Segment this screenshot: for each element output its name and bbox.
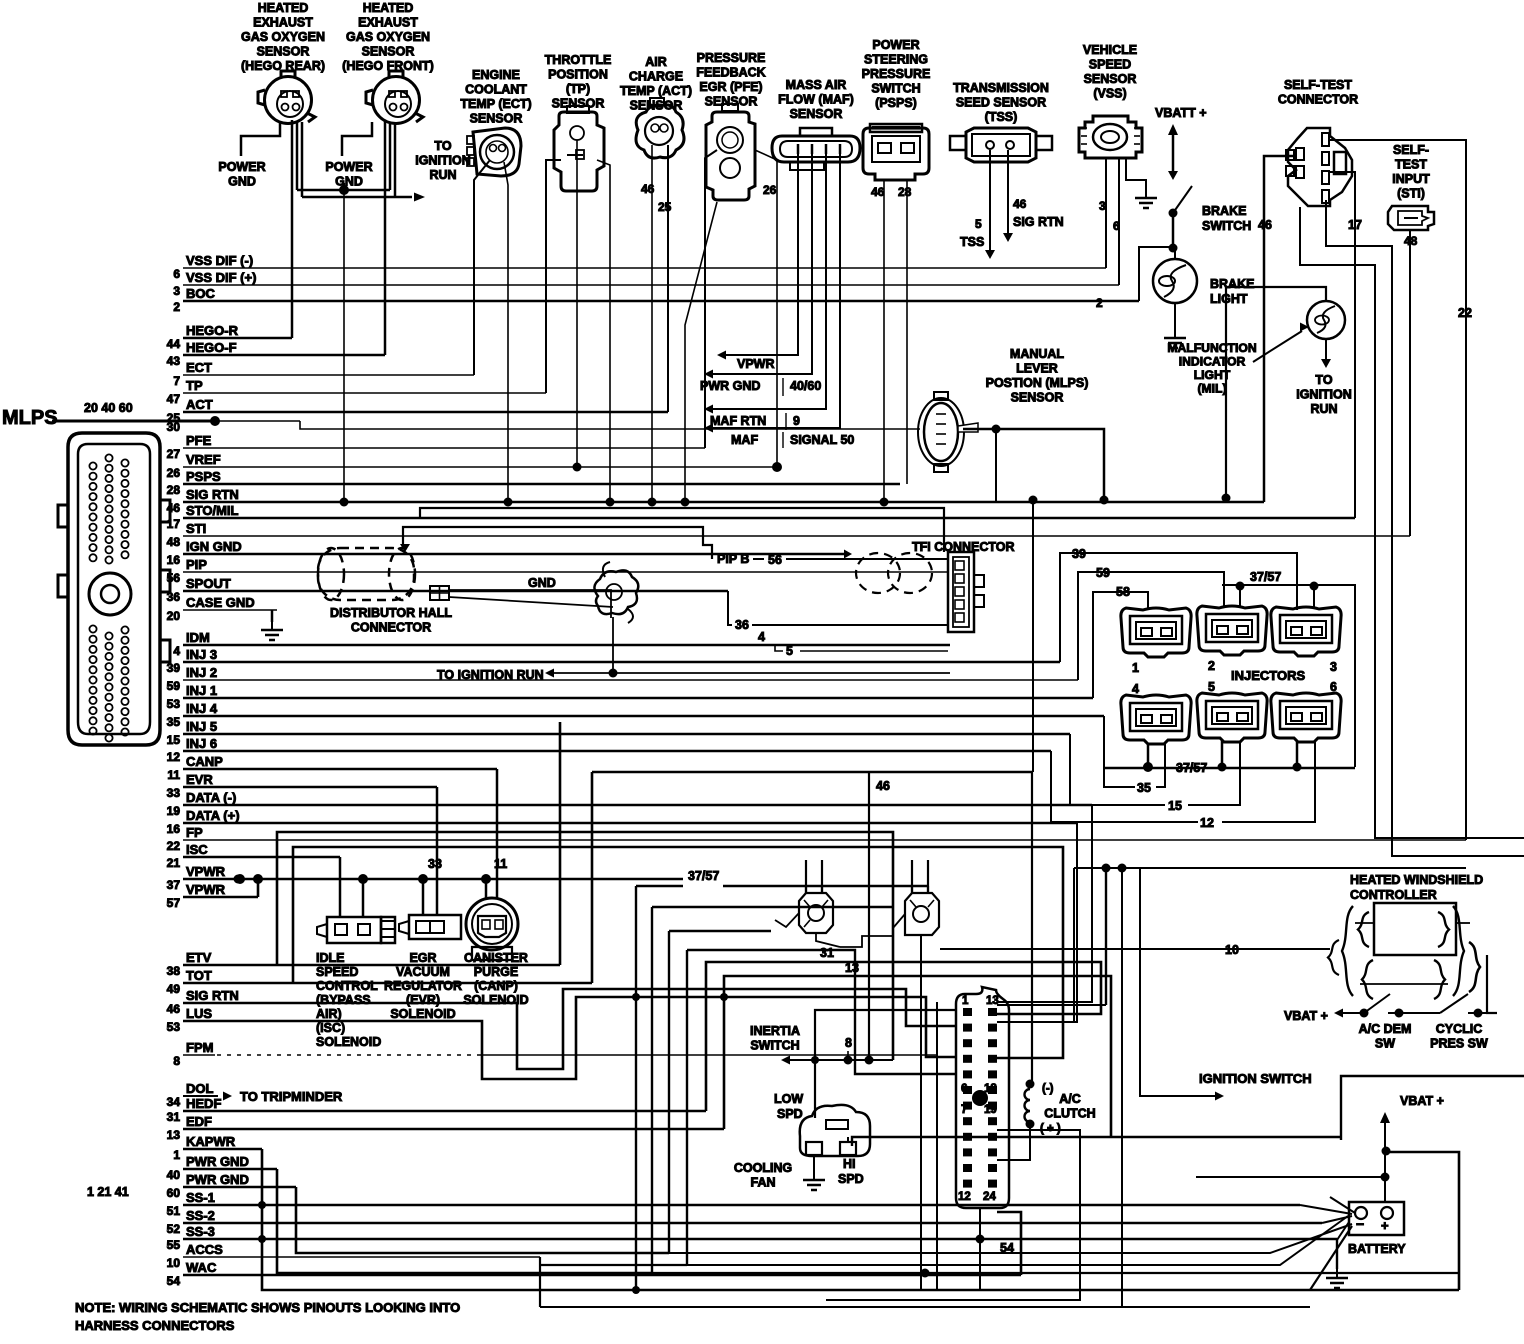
svg-text:INPUT: INPUT [1392, 172, 1430, 186]
wire TP VREF [576, 140, 578, 467]
svg-text:THROTTLE: THROTTLE [545, 53, 612, 67]
svg-text:SPD: SPD [777, 1107, 803, 1121]
svg-text:ACCS: ACCS [186, 1242, 223, 1257]
wire relay feed stubs [805, 886, 807, 893]
svg-text:52: 52 [167, 1222, 181, 1236]
svg-text:20 40 60: 20 40 60 [84, 401, 133, 415]
svg-text:55: 55 [167, 1238, 181, 1252]
wire HEGO front heater a [389, 122, 392, 190]
svg-text:SWITCH: SWITCH [871, 82, 920, 96]
wire TSS signal [989, 150, 991, 252]
wire pin 33 EVR [183, 786, 437, 789]
svg-text:26: 26 [763, 183, 777, 197]
wire MLPS to sig rtn [963, 429, 1104, 502]
wire pin 47 TP [183, 392, 546, 394]
svg-text:36: 36 [735, 618, 749, 632]
svg-text:SPEED: SPEED [316, 965, 358, 979]
svg-text:IGNITION SWITCH: IGNITION SWITCH [1199, 1071, 1312, 1086]
svg-text:28: 28 [167, 483, 181, 497]
svg-text:VREF: VREF [186, 452, 221, 467]
svg-text:ENGINE: ENGINE [472, 68, 520, 82]
svg-text:38: 38 [167, 964, 181, 978]
wire HEGO rear signal to pin 44 [291, 120, 294, 338]
shield junction box [430, 586, 449, 600]
wire PWR GND 40 chain [277, 1169, 652, 1273]
svg-text:LOW: LOW [774, 1092, 803, 1106]
wire pin 53 LUS [182, 1020, 185, 1023]
svg-text:12: 12 [1200, 816, 1214, 830]
svg-text:TO: TO [1315, 373, 1332, 387]
wire AC clutch feed from SIG RTN [1032, 500, 1034, 772]
svg-text:SPEED: SPEED [1089, 58, 1131, 72]
svg-text:4: 4 [173, 644, 180, 658]
wire pin 60 PWR GND [183, 1186, 296, 1189]
svg-text:MAF RTN: MAF RTN [710, 414, 766, 428]
svg-text:CASE GND: CASE GND [186, 595, 255, 610]
svg-text:56: 56 [167, 571, 181, 585]
svg-text:INJ 3: INJ 3 [186, 647, 217, 662]
distributor hall connector (dashed) [318, 548, 415, 600]
svg-text:27: 27 [167, 447, 181, 461]
wire pin 52 SS-2 [183, 1222, 1322, 1225]
svg-text:8: 8 [845, 1036, 852, 1050]
wire MIL to ignition run [1325, 339, 1327, 360]
wire INJ6 12 [1051, 751, 1198, 822]
wire pin 17 STO/MIL [183, 517, 1355, 520]
svg-text:EXHAUST: EXHAUST [358, 16, 418, 30]
wire SS-2 to battery [1322, 1216, 1352, 1223]
wire VSS pin6 to VSS DIF+ row [1118, 158, 1120, 285]
wire pin 38 ETV [183, 964, 560, 967]
svg-text:SPOUT: SPOUT [186, 576, 231, 591]
wire self-test top to 22 [1330, 140, 1466, 840]
svg-text:TP: TP [186, 378, 203, 393]
wire pin 44 HEGO-R [183, 337, 292, 340]
svg-text:−: − [1356, 1216, 1364, 1232]
svg-text:CONNECTOR: CONNECTOR [1278, 93, 1358, 107]
svg-text:FAN: FAN [751, 1176, 776, 1190]
svg-text:34: 34 [167, 1095, 181, 1109]
svg-text:CONTROL: CONTROL [316, 979, 378, 993]
svg-text:43: 43 [167, 354, 181, 368]
svg-text:IGN GND: IGN GND [186, 539, 242, 554]
wire C1 right pins misc [997, 1004, 1106, 1006]
svg-text:25: 25 [658, 200, 672, 214]
wire pin 2 BOC [183, 300, 1139, 303]
svg-text:GAS OXYGEN: GAS OXYGEN [346, 30, 430, 44]
svg-text:SENSOR: SENSOR [1011, 391, 1064, 405]
svg-text:SIG RTN: SIG RTN [186, 487, 239, 502]
svg-text:CHARGE: CHARGE [629, 70, 683, 84]
svg-text:37/57: 37/57 [1250, 570, 1281, 584]
svg-text:37: 37 [167, 878, 181, 892]
svg-text:(ISC): (ISC) [316, 1021, 345, 1035]
svg-text:KAPWR: KAPWR [186, 1134, 236, 1149]
svg-text:33: 33 [167, 786, 181, 800]
svg-text:FPM: FPM [186, 1040, 213, 1055]
svg-text:15: 15 [1168, 799, 1182, 813]
wire pin 1 KAPWR [183, 1148, 262, 1151]
wire heater junction h1 [297, 189, 390, 192]
wire pin 57 VPWR [183, 896, 258, 899]
battery [1349, 1202, 1404, 1235]
wire pin 48 STI [183, 535, 1410, 537]
svg-text:BRAKE: BRAKE [1202, 204, 1246, 218]
connector J1 pins [89, 462, 96, 469]
wire TOT riser [591, 772, 594, 983]
wire pin 21 ISC [183, 856, 340, 859]
svg-text:3: 3 [1330, 660, 1337, 674]
wire VPWR 57 jog to 37 [257, 879, 260, 897]
svg-text:22: 22 [1458, 306, 1472, 320]
svg-text:PIP B: PIP B [717, 552, 749, 566]
wire FPM row to C1 [936, 1002, 938, 1290]
svg-text:10: 10 [167, 1256, 181, 1270]
wire ACCS chain [539, 1257, 541, 1307]
svg-text:RUN: RUN [429, 168, 456, 182]
wire EVR left pin to VPWR [422, 879, 425, 915]
wire pin 37 VPWR [183, 878, 683, 881]
svg-text:INDICATOR: INDICATOR [1179, 355, 1246, 369]
svg-text:PRES SW: PRES SW [1430, 1037, 1488, 1051]
svg-text:SELF-: SELF- [1393, 143, 1429, 157]
svg-text:HEGO-R: HEGO-R [186, 323, 239, 338]
svg-text:INJ 5: INJ 5 [186, 719, 217, 734]
wire SS-1 to battery [1300, 1205, 1352, 1214]
wire CANP left pin to VPWR [485, 879, 488, 898]
svg-text:17: 17 [167, 517, 181, 531]
svg-text:SS-1: SS-1 [186, 1190, 215, 1205]
svg-text:(TP): (TP) [566, 82, 590, 96]
svg-text:STEERING: STEERING [864, 53, 928, 67]
svg-text:9: 9 [793, 414, 800, 428]
svg-text:TSS: TSS [960, 235, 984, 249]
svg-text:37/57: 37/57 [1176, 761, 1207, 775]
svg-text:40/60: 40/60 [790, 379, 821, 393]
svg-text:35: 35 [167, 715, 181, 729]
svg-text:12: 12 [167, 750, 181, 764]
svg-text:46: 46 [1013, 197, 1027, 211]
svg-text:NOTE: WIRING SCHEMATIC SHOWS P: NOTE: WIRING SCHEMATIC SHOWS PINOUTS LOO… [75, 1300, 460, 1315]
wire pin 25 ACT [183, 411, 668, 414]
svg-text:33: 33 [428, 857, 442, 871]
svg-text:TO IGNITION RUN: TO IGNITION RUN [437, 668, 544, 682]
wire SIG RTN branch bottom [183, 989, 956, 1069]
svg-text:PWR GND: PWR GND [186, 1154, 249, 1169]
svg-text:2: 2 [1208, 659, 1215, 673]
svg-text:46: 46 [167, 501, 181, 515]
wire 22 to FP handled above; wire 868 link [1074, 867, 1466, 869]
wire pin 46 SIG RTN [183, 501, 1264, 504]
wire HEGO front power gnd stub [342, 122, 372, 156]
svg-text:BRAKE: BRAKE [1210, 277, 1254, 291]
wire pin 20 CASE GND [183, 609, 277, 611]
svg-text:MAF: MAF [731, 433, 758, 447]
wire self-test lower branch [1300, 207, 1375, 536]
wire ECT sig rtn [504, 162, 508, 502]
svg-text:INJ 6: INJ 6 [186, 736, 217, 751]
wire HEGO rear power gnd stub [241, 122, 280, 156]
wire battery gnd [1337, 1222, 1349, 1270]
wire pin 6 VSS DIF (-) [183, 267, 1106, 269]
svg-text:(MIL): (MIL) [1197, 382, 1226, 396]
wire pin 28 PSPS [183, 483, 900, 486]
svg-text:DATA (+): DATA (+) [186, 808, 240, 823]
svg-text:59: 59 [1096, 566, 1110, 580]
svg-text:IDLE: IDLE [316, 951, 344, 965]
svg-text:SWITCH: SWITCH [1202, 219, 1251, 233]
wire MIL top [1226, 287, 1326, 498]
svg-text:INJ 1: INJ 1 [186, 683, 217, 698]
wire TO IGNITION RUN (distributor) [553, 672, 950, 674]
wire shield B [403, 527, 712, 559]
svg-text:6: 6 [961, 1083, 967, 1095]
wire arrow to MIL [1253, 331, 1302, 362]
wire STI input pin48 down [1409, 230, 1411, 536]
wire AC clutch return [997, 1124, 1030, 1160]
svg-text:11: 11 [494, 857, 507, 871]
svg-text:HEATED: HEATED [363, 1, 413, 15]
svg-text:A/C DEM: A/C DEM [1359, 1022, 1412, 1036]
svg-text:46: 46 [876, 779, 890, 793]
wire LUS branch bottom [183, 997, 956, 1079]
svg-text:FEEDBACK: FEEDBACK [696, 66, 765, 80]
wire pin 53 INJ 1 [183, 697, 1093, 700]
svg-text:SOLENOID: SOLENOID [316, 1035, 381, 1049]
wire bottom extra [1121, 868, 1123, 1307]
wire controller right down [1487, 955, 1497, 1013]
wire INJ1 58 [1093, 592, 1148, 698]
wire VSS gnd [1126, 158, 1146, 190]
svg-text:SEED SENSOR: SEED SENSOR [956, 96, 1046, 110]
svg-text:SENSOR: SENSOR [470, 112, 523, 126]
svg-text:VSS DIF (+): VSS DIF (+) [186, 270, 256, 285]
svg-text:SS-3: SS-3 [186, 1224, 215, 1239]
svg-text:28: 28 [898, 185, 912, 199]
wire PSPS signal 28 [906, 180, 908, 484]
svg-text:VSS DIF (-): VSS DIF (-) [186, 253, 253, 268]
wire HEGO front heater b [394, 122, 397, 197]
wire right staircase B [1375, 536, 1524, 838]
svg-text:IDM: IDM [186, 630, 210, 645]
svg-text:TEMP (ACT): TEMP (ACT) [620, 84, 692, 98]
svg-text:12: 12 [958, 1191, 971, 1203]
svg-text:35: 35 [1137, 781, 1151, 795]
svg-text:INERTIA: INERTIA [750, 1024, 800, 1038]
wire PIP B [753, 558, 764, 560]
wire 37/57 upper [1222, 585, 1355, 767]
wire PWR GND 60 chain [296, 1187, 669, 1253]
wire TP signal to pin 47 [546, 160, 561, 393]
svg-text:INJ 4: INJ 4 [186, 701, 218, 716]
wire HEGO rear heater a [296, 122, 299, 190]
wire brake sw to BOC [1139, 247, 1173, 301]
svg-text:8: 8 [173, 1054, 180, 1068]
wire pin 51 SS-1 [183, 1204, 1300, 1207]
svg-text:POSTION (MLPS): POSTION (MLPS) [986, 376, 1089, 390]
wire fan low feed from C1 [815, 1010, 956, 1118]
wire pin 7 ECT [183, 374, 474, 376]
svg-text:31: 31 [167, 1110, 181, 1124]
svg-text:SENSOR: SENSOR [1084, 72, 1137, 86]
wire PSPS sig rtn 46 [883, 180, 885, 502]
svg-text:HEATED WINDSHIELD: HEATED WINDSHIELD [1350, 873, 1483, 887]
wire pin 3 VSS DIF (+) [183, 284, 1119, 286]
fuel pump relay K1 [799, 893, 833, 933]
wire heater gnd drop [343, 190, 345, 502]
svg-text:15: 15 [167, 733, 181, 747]
svg-text:EXHAUST: EXHAUST [253, 16, 313, 30]
wire pin 26 VREF [183, 466, 777, 468]
wire pin 16 DATA (+) [183, 822, 1077, 825]
wire fan hi spd [847, 1137, 849, 1142]
svg-text:CANP: CANP [186, 754, 223, 769]
svg-text:4: 4 [1132, 682, 1139, 696]
svg-text:VPWR: VPWR [186, 882, 226, 897]
svg-text:MANUAL: MANUAL [1010, 347, 1065, 361]
svg-text:1: 1 [1132, 661, 1139, 675]
wire pin 22 FP [183, 839, 1466, 841]
wire pin 49 TOT [183, 982, 592, 985]
svg-text:HI: HI [843, 1157, 856, 1171]
svg-text:VBAT +: VBAT + [1400, 1094, 1444, 1108]
svg-text:SENSOR: SENSOR [257, 45, 310, 59]
wire C1 left pin [687, 950, 956, 1074]
wire DATA+ to connector [997, 823, 1077, 1022]
svg-text:PURGE: PURGE [474, 965, 518, 979]
svg-text:SENSOR: SENSOR [790, 107, 843, 121]
wire MAF RTN [713, 154, 826, 409]
svg-text:5: 5 [1208, 680, 1215, 694]
svg-text:LEVER: LEVER [1016, 362, 1058, 376]
svg-text:SIGNAL 50: SIGNAL 50 [790, 433, 854, 447]
svg-text:PRESSURE: PRESSURE [862, 67, 931, 81]
svg-text:7: 7 [961, 1104, 967, 1116]
wire battery plus link [1196, 1176, 1386, 1178]
svg-text:(TSS): (TSS) [985, 110, 1018, 124]
svg-text:RUN: RUN [1310, 402, 1337, 416]
svg-text:REGULATOR: REGULATOR [384, 979, 462, 993]
wire 37/57 lower to injectors 4-6 left pins [1104, 767, 1355, 770]
wire self-test 46 to SIG RTN [1264, 156, 1296, 502]
wire pin 43 HEGO-F [183, 354, 385, 357]
svg-text:(CANP): (CANP) [474, 979, 518, 993]
wire 54 [997, 1212, 1021, 1275]
svg-text:22: 22 [167, 839, 181, 853]
EEC-IV 60-pin connector J1 [68, 433, 160, 745]
svg-text:VEHICLE: VEHICLE [1083, 43, 1137, 57]
svg-text:46: 46 [167, 1002, 181, 1016]
wire PFE sig rtn [685, 202, 717, 502]
svg-text:DISTRIBUTOR HALL: DISTRIBUTOR HALL [330, 606, 452, 620]
svg-text:ECT: ECT [186, 360, 212, 375]
svg-text:47: 47 [167, 392, 181, 406]
wire idm jog [768, 645, 783, 651]
svg-text:PWR GND: PWR GND [186, 1172, 249, 1187]
svg-text:ISC: ISC [186, 842, 208, 857]
svg-text:36: 36 [167, 590, 181, 604]
svg-text:SENSOR: SENSOR [362, 45, 415, 59]
svg-text:PIP: PIP [186, 557, 207, 572]
wire distributor down to ignition line [612, 617, 614, 673]
svg-text:30: 30 [167, 420, 181, 434]
svg-text:AIR): AIR) [316, 1007, 342, 1021]
wire pin 8 FPM [182, 1054, 184, 1056]
svg-text:39: 39 [167, 661, 181, 675]
svg-text:INJ 2: INJ 2 [186, 665, 217, 680]
svg-text:SIG RTN: SIG RTN [186, 988, 239, 1003]
svg-text:1: 1 [962, 995, 969, 1007]
wire C1 bottom [979, 1208, 981, 1290]
svg-text:60: 60 [167, 1186, 181, 1200]
wire TSS sig rtn [1007, 150, 1009, 235]
svg-text:49: 49 [167, 982, 181, 996]
wire pin 10 ACCS [183, 1256, 540, 1258]
wire 46 SIG RTN branch horizontal [592, 771, 1032, 774]
svg-text:MALFUNCTION: MALFUNCTION [1167, 341, 1256, 355]
wire HEGO front signal to pin 43 [384, 120, 387, 355]
wire DOL to tripminder [183, 1095, 218, 1097]
wire ECT signal to pin 7 [474, 160, 490, 375]
svg-text:TO TRIPMINDER: TO TRIPMINDER [240, 1089, 343, 1104]
svg-text:(EVR): (EVR) [406, 993, 440, 1007]
wire FP/ETV heavy chain [277, 832, 893, 1060]
injector 2 [1197, 606, 1267, 655]
svg-text:HEATED: HEATED [258, 1, 308, 15]
svg-text:VACUUM: VACUUM [396, 965, 450, 979]
svg-text:16: 16 [167, 822, 181, 836]
svg-text:CANISTER: CANISTER [464, 951, 528, 965]
wire self-test STI branch [1326, 200, 1392, 285]
wire pin 54 WAC [183, 1274, 1021, 1277]
wire pin 59 INJ 2 [183, 679, 1078, 681]
svg-text:(PSPS): (PSPS) [875, 96, 917, 110]
24-pin connector C1 [956, 987, 1009, 1208]
wire MLPS branch down [995, 429, 997, 502]
svg-text:CLUTCH: CLUTCH [1044, 1107, 1095, 1121]
svg-text:BATTERY: BATTERY [1348, 1242, 1406, 1256]
svg-text:5: 5 [786, 644, 793, 658]
svg-text:SOLENOID: SOLENOID [463, 993, 528, 1007]
svg-text:SW: SW [1375, 1037, 1395, 1051]
svg-text:TO: TO [434, 139, 451, 153]
wire battery minus feeds [1310, 1226, 1352, 1290]
wire HEDF chain 31 [706, 962, 1101, 1111]
svg-text:COOLANT: COOLANT [465, 83, 527, 97]
svg-text:SIG RTN: SIG RTN [1013, 215, 1064, 229]
wire MAF VPWR [726, 154, 798, 355]
svg-text:LIGHT: LIGHT [1210, 292, 1248, 306]
TFI dashed connector [856, 553, 932, 593]
wire pin 15 INJ 5 [183, 733, 1070, 736]
wire 46 drop to bottom [868, 772, 870, 1060]
svg-text:COOLING: COOLING [734, 1161, 792, 1175]
svg-text:VPWR: VPWR [737, 357, 775, 371]
svg-text:SOLENOID: SOLENOID [390, 1007, 455, 1021]
svg-text:GAS OXYGEN: GAS OXYGEN [241, 30, 325, 44]
wire ISC left pin to ISC row [339, 857, 342, 917]
svg-text:37/57: 37/57 [688, 869, 719, 883]
wire MLPS to pin 30 [52, 420, 215, 423]
TFI connector body [948, 552, 974, 632]
wire IGN GND arrowhead [844, 550, 852, 559]
wire pin 55 SS-3 [183, 1238, 1337, 1241]
wire EDF chain 13 [724, 976, 1111, 1137]
wire TP sig rtn [597, 160, 610, 502]
svg-text:EGR: EGR [409, 951, 436, 965]
svg-text:48: 48 [167, 535, 181, 549]
svg-text:PFE: PFE [186, 433, 212, 448]
